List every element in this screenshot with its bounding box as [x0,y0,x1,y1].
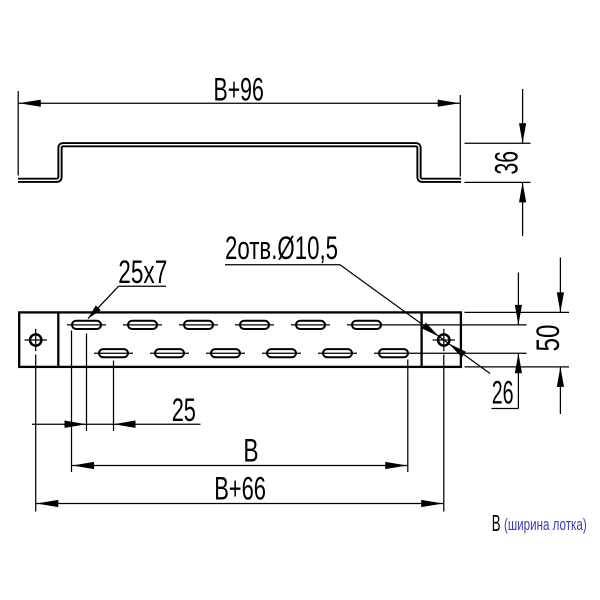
svg-text:(ширина лотка): (ширина лотка) [504,516,587,534]
svg-text:B+96: B+96 [214,71,264,107]
svg-text:36: 36 [488,151,524,175]
svg-text:B: B [492,510,501,536]
svg-text:2отв.Ø10,5: 2отв.Ø10,5 [225,230,338,266]
svg-text:B+66: B+66 [214,470,266,506]
svg-text:26: 26 [492,374,514,410]
svg-text:25x7: 25x7 [118,254,167,290]
svg-text:25: 25 [172,392,196,428]
svg-text:B: B [243,432,258,468]
svg-text:50: 50 [530,325,566,352]
